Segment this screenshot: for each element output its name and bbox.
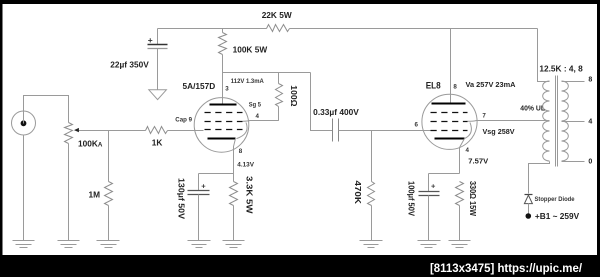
svg-text:130µf 50V: 130µf 50V bbox=[176, 178, 186, 219]
wire 1K to grid cap bbox=[168, 130, 204, 132]
wire V2 cathode junction horizontal bbox=[429, 173, 460, 175]
ground (470K) bbox=[360, 241, 383, 248]
svg-text:+B1 ~ 259V: +B1 ~ 259V bbox=[535, 211, 580, 221]
secondary terminal 8 bbox=[562, 81, 585, 83]
svg-text:100Ω: 100Ω bbox=[289, 85, 299, 106]
wire coupling cap to EL8 grid bbox=[339, 130, 431, 132]
svg-text:7: 7 bbox=[482, 113, 486, 120]
resistor 100R bbox=[276, 84, 283, 107]
wire 1M top bbox=[108, 131, 110, 182]
wire jack top to pot top bbox=[24, 96, 69, 124]
wire plate node rail bbox=[223, 72, 311, 74]
svg-text:6: 6 bbox=[415, 122, 419, 129]
V2 suppressor to cathode curve bbox=[465, 123, 472, 139]
svg-text:Stopper Diode: Stopper Diode bbox=[535, 196, 575, 203]
wire plate node down to coupling cap bbox=[311, 73, 333, 131]
ground (130uf) bbox=[188, 241, 211, 248]
svg-text:3: 3 bbox=[225, 86, 229, 93]
svg-text:4.13V: 4.13V bbox=[237, 162, 254, 169]
svg-text:100K 5W: 100K 5W bbox=[233, 44, 268, 54]
svg-text:+: + bbox=[148, 35, 153, 45]
wire 100R bottom lead bbox=[278, 107, 280, 121]
capacitor 100uf 50V bbox=[419, 174, 440, 241]
ground (jack) bbox=[13, 241, 35, 248]
svg-text:4: 4 bbox=[466, 147, 470, 154]
svg-text:470K: 470K bbox=[353, 181, 363, 204]
svg-text:Cap 9: Cap 9 bbox=[175, 117, 192, 124]
ground (330R) bbox=[449, 241, 471, 248]
ground (pot) bbox=[58, 241, 80, 248]
resistor 100K 5W bbox=[219, 29, 227, 73]
svg-text:Sg 5: Sg 5 bbox=[249, 101, 262, 108]
tube V1 5A/157D envelope bbox=[194, 98, 249, 153]
resistor 330R 15W bbox=[456, 182, 464, 241]
svg-text:EL8: EL8 bbox=[426, 81, 441, 91]
transformer T1 secondary coil bbox=[562, 81, 569, 161]
wire cathode junction horizontal bbox=[199, 173, 234, 175]
svg-text:+: + bbox=[431, 181, 436, 190]
svg-text:112V 1.3mA: 112V 1.3mA bbox=[231, 78, 264, 85]
svg-text:Vsg 258V: Vsg 258V bbox=[483, 127, 516, 136]
potentiometer 100KA bbox=[65, 123, 73, 144]
svg-text:[8113x3475] https://upic.me/: [8113x3475] https://upic.me/ bbox=[430, 261, 583, 275]
svg-text:22K 5W: 22K 5W bbox=[262, 10, 292, 20]
V1 suppressor to cathode curve bbox=[237, 123, 248, 139]
svg-text:4: 4 bbox=[588, 119, 592, 126]
secondary terminal 0 bbox=[562, 161, 585, 163]
pot wiper arrow bbox=[74, 128, 109, 132]
V2 grid dashes bbox=[431, 112, 468, 114]
svg-text:12.5K : 4, 8: 12.5K : 4, 8 bbox=[539, 64, 583, 74]
V2 cathode lead to pin 4 bbox=[460, 139, 465, 174]
V1 cathode bar bbox=[208, 138, 236, 140]
wire jack bottom to ground bbox=[23, 136, 25, 241]
ground (3.3K) bbox=[223, 241, 245, 248]
V2 plate bar bbox=[432, 103, 466, 105]
svg-text:5A/157D: 5A/157D bbox=[183, 81, 216, 91]
tube V2 EL8 envelope bbox=[422, 94, 477, 149]
svg-text:0: 0 bbox=[588, 159, 592, 166]
svg-text:Va 257V 23mA: Va 257V 23mA bbox=[466, 80, 516, 89]
transformer core bbox=[555, 76, 557, 167]
svg-text:8: 8 bbox=[239, 148, 243, 155]
wire top rail right bbox=[290, 28, 538, 30]
svg-text:0.33µf 400V: 0.33µf 400V bbox=[313, 107, 359, 117]
svg-text:8: 8 bbox=[453, 84, 457, 91]
svg-text:3.3K 5W: 3.3K 5W bbox=[244, 176, 254, 214]
V2 screen lead curve to pin 7 bbox=[468, 120, 550, 123]
capacitor 0.33uf 400V bbox=[333, 119, 339, 142]
resistor 470K grid leak bbox=[368, 131, 375, 241]
V1 screen lead curve to pin 4 bbox=[243, 120, 279, 123]
V2 cathode bar bbox=[435, 138, 465, 140]
wire wiper to 1K bbox=[109, 130, 146, 132]
secondary terminal 4 bbox=[562, 121, 585, 123]
svg-text:22µf 350V: 22µf 350V bbox=[110, 60, 149, 70]
capacitor 130uf 50V bbox=[188, 174, 210, 241]
wire B+ rail down to primary top bbox=[538, 29, 550, 82]
resistor 1K bbox=[146, 127, 168, 134]
svg-text:7.57V: 7.57V bbox=[468, 156, 489, 165]
wire 1M bottom to ground bbox=[108, 206, 110, 241]
svg-text:1M: 1M bbox=[89, 189, 101, 199]
svg-text:8: 8 bbox=[588, 77, 592, 84]
frame border bbox=[0, 0, 600, 4]
node B1 bullet bbox=[526, 213, 532, 219]
resistor 3.3K 5W bbox=[230, 174, 238, 241]
ground (100uf) bbox=[418, 241, 441, 248]
capacitor 22uf 350V bbox=[148, 29, 168, 90]
svg-text:100µf 50V: 100µf 50V bbox=[406, 181, 416, 216]
V1 plate bar bbox=[210, 104, 237, 106]
wire 100R top lead bbox=[278, 73, 280, 84]
wire pot bottom to ground bbox=[68, 144, 70, 241]
V1 grid dashes bbox=[205, 112, 243, 114]
resistor 1M bbox=[105, 182, 113, 206]
stopper diode D1 bbox=[524, 195, 532, 214]
chassis ground triangle bbox=[149, 90, 167, 100]
wire top rail left bbox=[158, 28, 267, 30]
input jack J1 bbox=[12, 111, 36, 135]
svg-text:1K: 1K bbox=[152, 138, 163, 148]
wire EL8 plate lead from rail bbox=[450, 29, 452, 104]
svg-text:4: 4 bbox=[256, 113, 260, 120]
svg-text:+: + bbox=[201, 181, 206, 190]
wire primary bottom to diode bbox=[529, 162, 550, 194]
wire V1 plate lead bbox=[222, 73, 224, 104]
V1 cathode lead to pin 8 bbox=[234, 139, 236, 174]
resistor 22K 5W bbox=[267, 25, 290, 32]
svg-text:330Ω 15W: 330Ω 15W bbox=[468, 181, 478, 216]
ground (1M) bbox=[97, 241, 120, 248]
svg-text:40% UL: 40% UL bbox=[520, 104, 545, 113]
transformer T1 primary coil bbox=[543, 81, 550, 161]
